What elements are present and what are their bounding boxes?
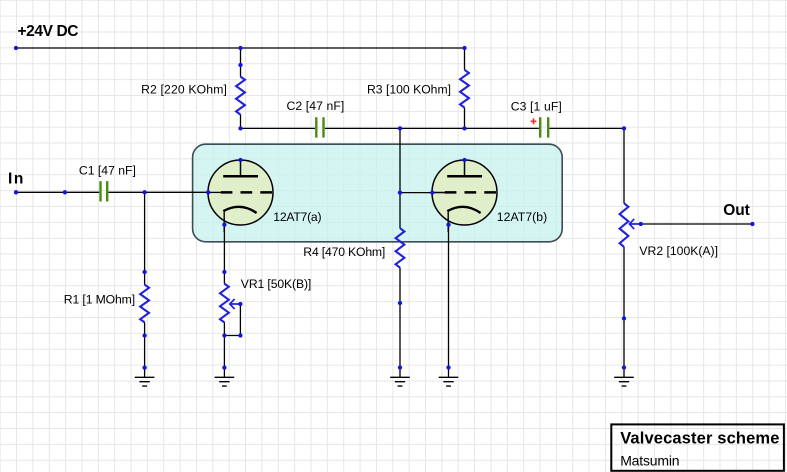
capacitor C2 — [316, 117, 323, 137]
wire cathode b to ground — [448, 225, 450, 378]
wire VR1 wiper to bottom terminal — [224, 304, 240, 336]
resistor R3 — [460, 70, 469, 108]
svg-text:Matsumin: Matsumin — [620, 452, 679, 468]
node at 144.6,335.5 — [142, 333, 146, 337]
node at 224.4,367.6 — [222, 365, 226, 369]
wire C3 out down to VR2 — [623, 128, 625, 377]
svg-text:VR1 [50K(B)]: VR1 [50K(B)] — [241, 277, 311, 291]
svg-text:C1 [47 nF]: C1 [47 nF] — [79, 164, 136, 178]
svg-text:C3 [1 uF]: C3 [1 uF] — [511, 100, 562, 114]
wire interstage row (C2 row) — [241, 127, 625, 129]
node at 400,367.5 — [398, 365, 402, 369]
node at 224.4,335.5 — [222, 333, 226, 337]
capacitor C1 — [101, 181, 108, 201]
node at 144.6,192.3 — [142, 190, 146, 194]
ground for R1 — [135, 377, 155, 386]
wire R3 leads — [464, 48, 466, 128]
resistor R4 — [396, 228, 405, 267]
ground for cathode b — [439, 377, 459, 386]
triode U1b (12AT7(b)) — [432, 160, 497, 225]
node at 752.4,224 — [750, 222, 754, 226]
svg-text:R3 [100 KOhm]: R3 [100 KOhm] — [367, 82, 451, 96]
svg-text:R2 [220 KOhm]: R2 [220 KOhm] — [141, 82, 227, 96]
node at 240.5,48 — [238, 46, 242, 50]
node at 448.5,367.5 — [446, 365, 450, 369]
svg-text:12AT7(b): 12AT7(b) — [497, 210, 547, 224]
svg-text:12AT7(a): 12AT7(a) — [273, 210, 321, 224]
svg-text:C2 [47 nF]: C2 [47 nF] — [287, 99, 345, 113]
tube stage highlight panel — [193, 144, 563, 242]
svg-text:+24V DC: +24V DC — [18, 23, 79, 40]
node at 464.5,128.4 — [462, 126, 466, 130]
node at 624,367.5 — [622, 365, 626, 369]
potentiometer VR1 body — [220, 284, 229, 323]
svg-text:VR2 [100K(A)]: VR2 [100K(A)] — [639, 244, 718, 258]
node at 64.9,192.3 — [63, 190, 67, 194]
svg-text:R1 [1 MOhm]: R1 [1 MOhm] — [64, 292, 135, 306]
node at 16,192.3 — [14, 190, 18, 194]
node at 624,318.4 — [622, 316, 626, 320]
svg-text:Out: Out — [723, 202, 750, 219]
svg-text:R4 [470 KOhm]: R4 [470 KOhm] — [303, 245, 385, 259]
node at 448.5,224.7 — [446, 223, 450, 227]
node at 240.5,160 — [238, 158, 242, 162]
node at 16,48 — [14, 46, 18, 50]
svg-text:In: In — [8, 171, 23, 188]
node at 432.3,192.6 — [430, 190, 434, 194]
potentiometer VR1 wiper arrow — [230, 299, 241, 309]
potentiometer VR2 wiper arrow — [629, 219, 640, 229]
node at 224.4,224.7 — [222, 223, 226, 227]
wire input row — [16, 191, 208, 193]
title block box — [611, 424, 784, 470]
capacitor C3 polarity + — [531, 118, 537, 124]
capacitor C3 — [540, 117, 548, 137]
node at 208.2,192.3 — [206, 190, 210, 194]
node at 240.4,335.5 — [238, 333, 242, 337]
wire C1 junction down to R1 — [144, 192, 146, 272]
wire grid b tap — [400, 192, 445, 194]
svg-text:Valvecaster scheme: Valvecaster scheme — [620, 430, 779, 448]
node at 240.5,65 — [238, 63, 242, 67]
node at 400,303 — [398, 301, 402, 305]
wire R1 leads — [144, 272, 146, 377]
ground for VR2 — [614, 377, 634, 386]
wire VR2 wiper to Out — [641, 223, 753, 225]
resistor R1 — [140, 285, 149, 323]
wire R4 chain from C2 row through grid node — [399, 128, 401, 377]
net +24V rail wire — [16, 47, 465, 49]
node at 400,128.4 — [398, 126, 402, 130]
ground for R4 — [390, 377, 410, 386]
node at 240.5,128.4 — [238, 126, 242, 130]
node at 464.5,160 — [462, 158, 466, 162]
triode U1a (12AT7(a)) — [208, 160, 273, 225]
node at 464.5,48 — [462, 46, 466, 50]
node at 400,192.6 — [398, 190, 402, 194]
node at 640.8,224 — [639, 222, 643, 226]
potentiometer VR2 body — [620, 203, 629, 247]
node at 144.6,367.6 — [142, 365, 146, 369]
node at 144.6,272 — [142, 270, 146, 274]
node at 624,128.4 — [622, 126, 626, 130]
wire R2 leads — [240, 48, 242, 128]
wire cathode a down to VR1 — [223, 225, 225, 378]
node at 240.4,304 — [238, 302, 242, 306]
node at 224.4,272 — [222, 270, 226, 274]
resistor R2 — [236, 77, 245, 115]
ground for VR1 — [215, 377, 235, 386]
